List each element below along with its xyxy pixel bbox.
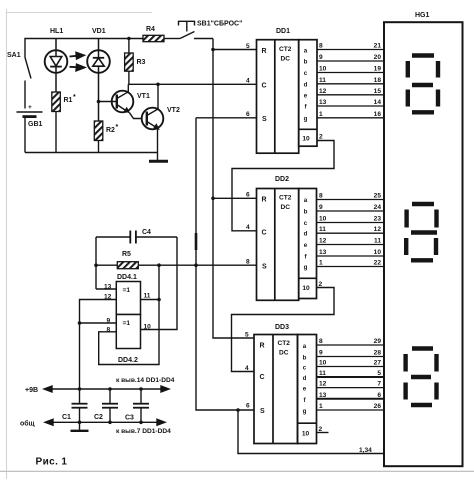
svg-text:10: 10: [374, 249, 382, 256]
svg-text:C2: C2: [94, 414, 103, 421]
digit 2: [406, 204, 437, 260]
svg-text:DD3: DD3: [275, 324, 289, 331]
svg-text:e: e: [304, 92, 308, 99]
svg-text:DD2: DD2: [275, 176, 289, 183]
svg-text:2: 2: [319, 134, 323, 141]
wire S bus: [196, 118, 254, 410]
svg-text:Рис. 1: Рис. 1: [36, 457, 68, 468]
svg-text:DD4.1: DD4.1: [117, 274, 137, 281]
svg-text:d: d: [303, 375, 307, 382]
svg-text:к выв.14 DD1-DD4: к выв.14 DD1-DD4: [116, 377, 175, 384]
wire VT2 collector up: [157, 84, 159, 109]
wires DD2 outputs to HG1: [317, 200, 385, 267]
svg-text:e: e: [303, 386, 307, 393]
svg-text:HG1: HG1: [415, 12, 430, 19]
gate DD4.2: [116, 315, 140, 349]
wire R2 to bottom rail: [98, 141, 100, 153]
svg-text:a: a: [303, 343, 307, 350]
button SB1: [179, 21, 214, 38]
svg-text:DC: DC: [281, 56, 291, 63]
svg-text:12: 12: [319, 381, 327, 388]
svg-text:10: 10: [319, 216, 327, 223]
svg-text:b: b: [304, 59, 308, 66]
wires DD3 outputs to HG1: [317, 345, 385, 410]
resistor R3: [125, 53, 134, 71]
wire DD2 R row: [213, 197, 257, 199]
svg-text:c: c: [303, 365, 307, 372]
wire bottom rail: [25, 152, 158, 154]
svg-text:21: 21: [374, 43, 382, 50]
wire battery to bottom rail: [24, 118, 26, 153]
svg-text:6: 6: [246, 111, 250, 118]
svg-text:4: 4: [246, 78, 250, 85]
wire oscillator row / DD2 S row: [96, 264, 257, 266]
svg-text:DD4.2: DD4.2: [118, 357, 138, 364]
svg-text:28: 28: [374, 350, 382, 357]
wire reset bus: [213, 39, 254, 339]
svg-text:8: 8: [319, 338, 323, 345]
svg-text:CT2: CT2: [279, 195, 292, 202]
svg-text:10: 10: [302, 431, 310, 438]
wire DD1 R row: [213, 49, 257, 51]
svg-text:15: 15: [374, 88, 382, 95]
svg-text:12: 12: [374, 226, 382, 233]
svg-text:C: C: [262, 83, 267, 90]
digit 3: [406, 349, 437, 406]
wire R3 top: [128, 39, 130, 54]
svg-text:g: g: [304, 264, 308, 271]
svg-text:e: e: [304, 242, 308, 249]
svg-text:5: 5: [245, 332, 249, 339]
svg-text:18: 18: [374, 77, 382, 84]
svg-text:12: 12: [319, 88, 327, 95]
svg-text:6: 6: [246, 403, 250, 410]
svg-text:к выв.7 DD1-DD4: к выв.7 DD1-DD4: [116, 428, 171, 435]
svg-text:R2: R2: [106, 127, 115, 134]
wire VT2 emitter down: [157, 129, 159, 161]
svg-text:10: 10: [319, 66, 327, 73]
svg-text:11: 11: [319, 226, 326, 233]
svg-text:d: d: [304, 81, 308, 88]
svg-text:R5: R5: [122, 251, 131, 258]
svg-text:6: 6: [377, 392, 381, 399]
svg-text:1: 1: [319, 403, 323, 410]
svg-text:C3: C3: [125, 415, 134, 422]
digit 1: [408, 56, 438, 113]
svg-text:13: 13: [319, 99, 327, 106]
svg-text:C4: C4: [142, 229, 151, 236]
svg-text:b: b: [304, 209, 308, 216]
wire R3 bottom to collector row: [128, 71, 130, 84]
svg-text:8: 8: [246, 259, 250, 266]
svg-text:R4: R4: [146, 26, 155, 33]
svg-text:9: 9: [319, 54, 323, 61]
svg-text:14: 14: [374, 99, 382, 106]
svg-text:*: *: [116, 124, 119, 131]
wire VT1 collector up: [127, 84, 129, 92]
svg-text:общ: общ: [20, 420, 35, 428]
svg-text:GB1: GB1: [28, 121, 43, 128]
svg-text:13: 13: [319, 249, 327, 256]
svg-text:d: d: [304, 231, 308, 238]
svg-text:a: a: [304, 197, 308, 204]
svg-text:24: 24: [374, 204, 382, 211]
wire top rail: [25, 39, 180, 58]
svg-text:R3: R3: [137, 59, 146, 66]
svg-text:5: 5: [246, 43, 250, 50]
svg-text:*: *: [73, 94, 76, 101]
svg-text:8: 8: [319, 43, 323, 50]
svg-text:CT2: CT2: [279, 46, 292, 53]
light arrows: [70, 53, 85, 71]
wire clock row to DD1 C: [128, 83, 256, 85]
svg-text:7: 7: [377, 381, 381, 388]
svg-text:8: 8: [319, 193, 323, 200]
svg-text:11: 11: [374, 238, 381, 245]
svg-text:DC: DC: [281, 204, 291, 211]
wires DD1 outputs to HG1: [317, 50, 384, 118]
svg-text:C1: C1: [62, 414, 71, 421]
svg-text:10: 10: [302, 136, 310, 143]
node VD1/VT1 base: [97, 100, 101, 104]
wire C4 left vertical: [95, 237, 97, 289]
svg-text:c: c: [304, 220, 308, 227]
svg-text:25: 25: [374, 193, 382, 200]
svg-text:10: 10: [302, 285, 310, 292]
svg-text:g: g: [304, 115, 308, 122]
svg-text:5: 5: [377, 370, 381, 377]
svg-text:23: 23: [374, 216, 382, 223]
node collector row: [156, 83, 160, 87]
svg-text:c: c: [304, 70, 308, 77]
resistor R2: [94, 121, 103, 141]
svg-text:+: +: [28, 104, 32, 111]
svg-text:11: 11: [319, 370, 326, 377]
svg-text:12: 12: [319, 238, 327, 245]
wire R1 to bottom rail: [55, 112, 57, 153]
pin numbers DD1 outputs: [319, 43, 327, 118]
svg-text:S: S: [262, 116, 267, 123]
node R3 top rail: [127, 37, 130, 40]
svg-text:DD1: DD1: [276, 28, 290, 35]
svg-text:SA1: SA1: [7, 52, 21, 59]
svg-text:11: 11: [144, 293, 151, 300]
svg-text:+9В: +9В: [25, 387, 38, 394]
svg-text:VT1: VT1: [137, 93, 150, 100]
svg-text:b: b: [303, 355, 307, 362]
svg-text:DC: DC: [279, 350, 289, 357]
svg-text:R: R: [262, 197, 267, 204]
svg-text:VT2: VT2: [167, 107, 180, 114]
svg-text:27: 27: [374, 360, 382, 367]
svg-text:R1: R1: [64, 97, 73, 104]
svg-text:1: 1: [319, 111, 323, 118]
scan artifacts: [6, 9, 152, 479]
svg-text:=1: =1: [123, 320, 131, 327]
svg-text:C: C: [262, 230, 267, 237]
svg-text:=1: =1: [123, 287, 131, 294]
svg-text:26: 26: [374, 403, 382, 410]
svg-text:SB1"СБРОС": SB1"СБРОС": [197, 21, 242, 28]
svg-text:10: 10: [319, 360, 327, 367]
resistor R1: [52, 92, 61, 112]
svg-text:C: C: [260, 374, 265, 381]
wire VT1 emitter to VT2 base: [130, 113, 142, 119]
ground: [149, 160, 168, 163]
svg-text:9: 9: [319, 350, 323, 357]
svg-text:1: 1: [319, 260, 323, 267]
pin numbers DD2 outputs: [319, 193, 327, 267]
svg-text:CT2: CT2: [278, 340, 291, 347]
svg-text:29: 29: [374, 338, 382, 345]
svg-text:R: R: [262, 48, 267, 55]
svg-text:16: 16: [374, 111, 382, 118]
svg-text:4: 4: [245, 365, 249, 372]
svg-text:4: 4: [246, 224, 250, 231]
svg-text:VD1: VD1: [92, 28, 106, 35]
svg-text:6: 6: [246, 192, 250, 199]
svg-text:S: S: [262, 264, 267, 271]
svg-text:20: 20: [374, 54, 382, 61]
svg-text:a: a: [304, 48, 308, 55]
svg-text:19: 19: [374, 66, 382, 73]
svg-text:R: R: [260, 343, 265, 350]
svg-text:g: g: [303, 408, 307, 415]
svg-text:13: 13: [319, 392, 327, 399]
battery GB1: [17, 112, 43, 117]
svg-text:11: 11: [319, 77, 326, 84]
svg-text:HL1: HL1: [50, 28, 63, 35]
svg-text:22: 22: [374, 260, 382, 267]
switch SA1: [25, 58, 31, 109]
svg-text:9: 9: [319, 204, 323, 211]
svg-text:S: S: [260, 408, 265, 415]
wire DD1 S row: [196, 117, 257, 119]
pin numbers DD3 outputs: [319, 338, 327, 410]
